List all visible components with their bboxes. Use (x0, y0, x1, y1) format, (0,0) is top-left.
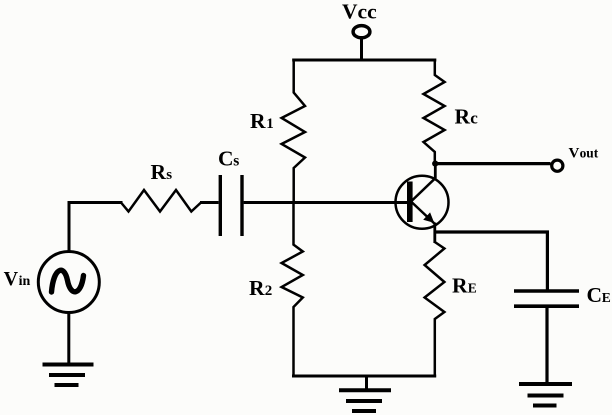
svg-text:C: C (218, 146, 234, 170)
label Rc (455, 105, 479, 129)
svg-text:R: R (455, 105, 471, 129)
resistor Rc (424, 59, 445, 164)
ground middle (339, 376, 391, 411)
label CE (587, 283, 611, 307)
ground Vin (43, 365, 94, 386)
label RE (452, 273, 477, 297)
svg-text:E: E (468, 280, 477, 295)
svg-text:in: in (19, 274, 31, 289)
svg-text:R: R (151, 160, 167, 184)
svg-text:V: V (569, 146, 580, 162)
label Rs (151, 160, 173, 184)
net label Vout (569, 146, 599, 162)
capacitor CE (514, 291, 579, 306)
resistor RE (425, 232, 445, 377)
wire collector vertical (434, 162, 437, 179)
wire Vin riser to Rs (69, 203, 123, 252)
svg-text:R: R (250, 109, 266, 133)
label R1 (250, 109, 274, 133)
terminal Vcc (353, 26, 370, 38)
node collector junction (432, 161, 438, 167)
svg-text:R: R (249, 276, 265, 300)
terminal Vout (552, 160, 563, 171)
source Vin (38, 252, 99, 313)
ground CE (519, 384, 572, 406)
wire top rail (292, 59, 436, 62)
svg-text:R: R (452, 273, 468, 297)
wire collector to Vout (435, 162, 551, 165)
wire Cs to base (244, 201, 408, 204)
wire Vcc stem (360, 39, 363, 62)
wire CE stem (545, 307, 548, 383)
svg-text:Vcc: Vcc (342, 0, 377, 24)
wire emitter to CE (435, 232, 548, 290)
wire emitter vertical (433, 223, 436, 244)
svg-text:2: 2 (265, 283, 273, 299)
resistor R1 (282, 59, 305, 204)
wire bottom rail (292, 375, 436, 378)
svg-text:V: V (4, 268, 19, 290)
svg-text:E: E (602, 290, 611, 305)
svg-text:out: out (580, 146, 599, 161)
resistor R2 (282, 202, 303, 377)
svg-text:s: s (166, 167, 172, 183)
transistor Q1 (396, 176, 449, 229)
svg-text:1: 1 (266, 116, 274, 132)
svg-text:C: C (587, 283, 603, 307)
wire Rs to Cs (200, 201, 219, 204)
svg-text:c: c (470, 109, 478, 128)
label Vin (4, 268, 31, 290)
wire Vin to ground (67, 312, 70, 365)
capacitor Cs (220, 175, 242, 236)
label Cs (218, 146, 239, 170)
resistor Rs (121, 190, 201, 212)
label R2 (249, 276, 272, 300)
svg-text:s: s (233, 152, 239, 169)
